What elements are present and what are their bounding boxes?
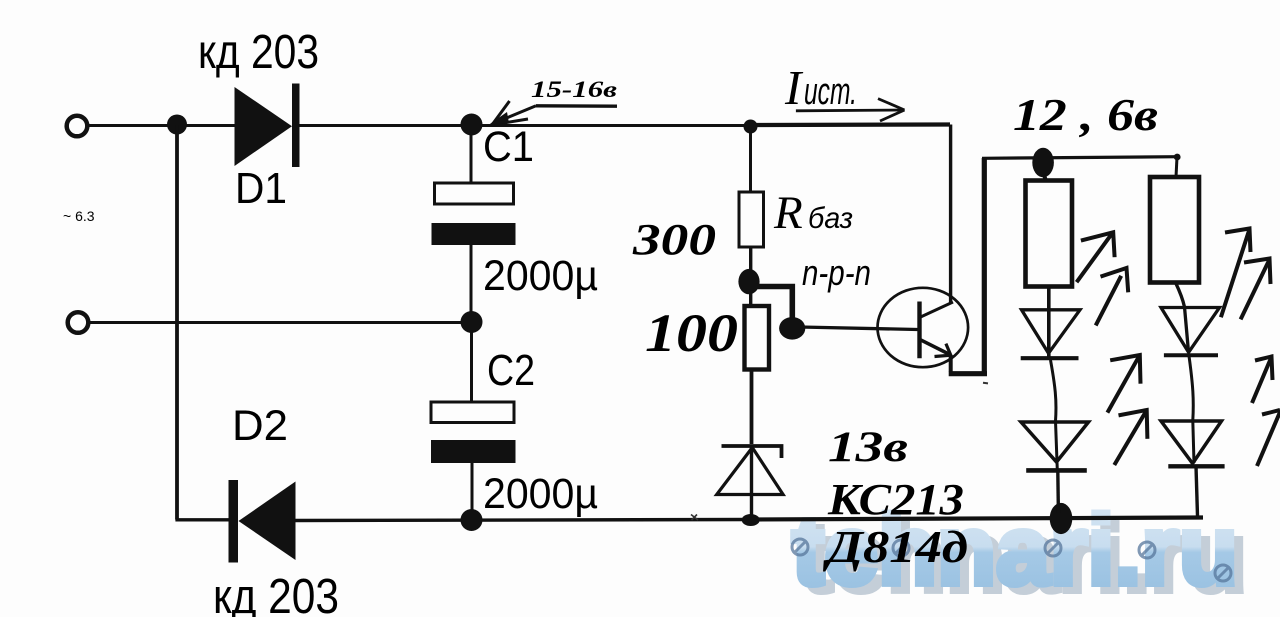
LED HL4 bar [1168, 464, 1224, 468]
watermark tehnari.ru [792, 495, 1247, 612]
wire base [800, 327, 918, 330]
wire bottom rail right [752, 518, 1203, 520]
wire R-LED1 down [1047, 287, 1051, 358]
wire node to R2 [1044, 175, 1046, 181]
x artifact mark [691, 515, 698, 521]
wire bottom rail mid [295, 520, 752, 521]
LED HL4 triangle [1161, 421, 1222, 464]
wire emitter down [949, 355, 953, 372]
svg-text:Д814д: Д814д [822, 522, 968, 572]
wire collector vertical [949, 125, 952, 304]
node C2 bottom [461, 509, 483, 531]
transistor emitter diagonal [921, 340, 951, 355]
light arrow B2 [1114, 410, 1147, 465]
wire input top [88, 124, 236, 127]
wire Rbase to node [749, 247, 752, 276]
transistor VT1 circle [878, 288, 969, 367]
svg-text:C2: C2 [487, 346, 535, 395]
svg-text:~ 6.3: ~ 6.3 [63, 208, 95, 224]
light arrow C2 [1241, 259, 1271, 320]
LED HL1 bar [1021, 356, 1079, 360]
svg-text:n-p-n: n-p-n [802, 252, 871, 293]
light arrow D1a [1252, 357, 1273, 404]
svg-text:кд 203: кд 203 [213, 570, 339, 617]
svg-text:2000µ: 2000µ [483, 252, 598, 300]
wire emitter riser [982, 158, 987, 374]
wire HL3 to HL4 [1189, 356, 1194, 463]
transistor base bar [917, 302, 921, 359]
svg-text:баз: баз [808, 202, 853, 235]
resistor Rbase 300 [739, 192, 764, 247]
wire R-LED2 down [1176, 283, 1189, 353]
wire LED rail top [982, 157, 1178, 159]
zener VD1 bar [722, 446, 782, 458]
diode D2 [229, 480, 296, 563]
node wiper [779, 317, 805, 340]
LED HL3 triangle [1161, 308, 1220, 353]
terminal T1 [67, 116, 88, 137]
wire bottom rail left [175, 518, 230, 521]
node LED rail [1032, 148, 1054, 178]
resistor R-LED1 [1026, 181, 1073, 287]
light arrow A1 [1077, 232, 1115, 282]
zener wire down [750, 446, 753, 517]
transistor emitter arrow [935, 344, 951, 357]
wire left vertical [175, 125, 179, 520]
svg-text:13в: 13в [828, 424, 908, 471]
light arrow B1 [1107, 355, 1140, 413]
wire node to R100 [749, 290, 752, 307]
light arrow C1 [1221, 229, 1251, 318]
transistor collector diagonal [920, 302, 954, 318]
wire input bottom [89, 321, 471, 324]
terminal T2 [68, 312, 89, 333]
LED HL3 bar [1164, 353, 1218, 357]
wire rail to corner [751, 122, 950, 127]
node C1 top [461, 114, 483, 136]
svg-text:R: R [773, 187, 803, 239]
light arrow D2a [1257, 410, 1280, 466]
resistor Rbase wire top [749, 127, 752, 192]
svg-text:I: I [784, 60, 804, 115]
light arrow A2 [1096, 268, 1129, 325]
svg-text:100: 100 [645, 303, 738, 363]
svg-text:ист.: ист. [804, 71, 857, 113]
wire emitter horizontal [949, 371, 987, 376]
node divider [738, 269, 759, 294]
svg-text:кд 203: кд 203 [198, 26, 319, 79]
node LED string bottom [1050, 503, 1073, 534]
node Rbase top [744, 120, 758, 134]
watermark registered marks [792, 539, 1231, 581]
wire to R-LED2 [1176, 157, 1177, 177]
svg-text:15-16в: 15-16в [531, 77, 617, 102]
current arrow I [796, 99, 905, 121]
svg-text:D2: D2 [232, 402, 288, 450]
svg-text:12 , 6в: 12 , 6в [1013, 89, 1158, 140]
zener VD1 triangle [717, 448, 783, 495]
node rail right end [1174, 154, 1181, 161]
resistor R-LED2 [1150, 177, 1199, 283]
svg-text:2000µ: 2000µ [483, 470, 598, 518]
wire pot jumper [756, 287, 792, 323]
svg-text:D1: D1 [235, 164, 287, 213]
wire HL1 to HL2 [1051, 360, 1058, 470]
node mid divider [461, 311, 483, 333]
wire HL4 down [1196, 466, 1198, 516]
dash artifact [983, 382, 988, 385]
LED HL2 bar [1026, 468, 1087, 473]
node junction top-left [167, 115, 187, 135]
svg-text:C1: C1 [483, 123, 534, 171]
svg-text:КС213: КС213 [827, 475, 964, 524]
capacitor C1 [470, 130, 473, 183]
wire D1 to right [300, 124, 752, 127]
LED HL1 triangle [1022, 310, 1081, 354]
node zener bottom [742, 514, 760, 526]
wire R100 to zener [750, 370, 754, 445]
resistor 100 [745, 306, 770, 370]
wire HL2 down [1056, 470, 1060, 513]
capacitor C2 [470, 322, 473, 402]
svg-text:300: 300 [632, 215, 716, 264]
diode D1 [235, 84, 300, 168]
LED HL2 triangle [1021, 422, 1089, 462]
leader arrow 15-16v [487, 101, 617, 126]
